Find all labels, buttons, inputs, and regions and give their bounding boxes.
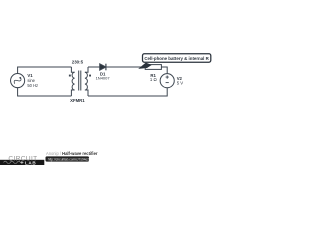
labels — [27, 56, 209, 103]
transformer XFMR1 primary lead top — [71, 67, 74, 72]
svg-text:Cell-phone battery & internal: Cell-phone battery & internal R — [144, 56, 209, 61]
voltage source V1 — [11, 74, 25, 88]
minus sign V2 — [166, 82, 169, 84]
svg-text:50 Hz: 50 Hz — [27, 83, 38, 88]
phase dot primary — [69, 75, 71, 77]
plus sign V2 — [166, 76, 169, 79]
annotation arrow — [138, 63, 152, 69]
wire resistor to V2 — [162, 67, 168, 74]
secondary lead bottom — [85, 90, 88, 96]
svg-text:LAB: LAB — [25, 160, 36, 165]
svg-text:Anonip / Half-wave rectifier: Anonip / Half-wave rectifier — [46, 151, 98, 156]
voltage source V2 — [160, 74, 174, 88]
wire top-left: V1 top to transformer primary — [18, 67, 72, 74]
resistor R1 (box) — [145, 65, 161, 70]
diode D1 — [100, 64, 106, 70]
svg-text:XFMR1: XFMR1 — [70, 98, 85, 103]
wire diode to resistor — [106, 66, 145, 68]
wire secondary top to diode — [88, 66, 100, 68]
primary lead bottom — [71, 90, 74, 96]
sine glyph inside V1 — [13, 75, 23, 85]
svg-text:1N4007: 1N4007 — [96, 75, 111, 80]
watermark url badge — [46, 156, 90, 161]
secondary lead top — [85, 67, 88, 72]
secondary coil — [85, 72, 88, 90]
phase dot secondary — [89, 75, 91, 77]
svg-text:http://circuitlab.com/c/7s94e2: http://circuitlab.com/c/7s94e2 — [48, 157, 90, 161]
watermark logo bar — [0, 160, 44, 165]
svg-text:230:5: 230:5 — [72, 60, 84, 65]
svg-text:5 V: 5 V — [177, 80, 184, 85]
wire bottom-left: V1 bottom to transformer primary bottom — [18, 88, 72, 96]
annotation box — [143, 54, 211, 62]
wire V2 bottom to secondary bottom — [88, 88, 167, 96]
primary coil — [72, 72, 75, 90]
transformer core — [79, 71, 81, 91]
svg-text:1 Ω: 1 Ω — [150, 77, 158, 82]
